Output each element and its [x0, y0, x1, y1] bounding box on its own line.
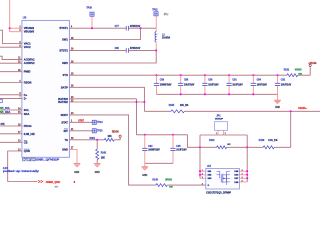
wire jumper loop top [200, 134, 247, 136]
svg-text:BQ25713R: BQ25713R [23, 159, 35, 162]
test point TP24 [92, 120, 96, 124]
wire R131 to +VCHG [298, 67, 311, 76]
svg-text:47NF/16V: 47NF/16V [130, 25, 141, 28]
wire INT to TP25 [70, 130, 93, 132]
svg-text:R131: R131 [284, 70, 290, 72]
svg-text:3: 3 [202, 177, 203, 179]
wire PMID from left edge [0, 71, 22, 73]
wire jumper loop right [246, 135, 248, 147]
svg-text:C90: C90 [208, 80, 213, 82]
U17 internal FET symbol [217, 171, 220, 178]
svg-text:R301: R301 [90, 138, 96, 140]
svg-text:C88: C88 [184, 80, 189, 82]
svg-text:10UF/16V: 10UF/16V [176, 149, 187, 151]
wire ACDRV2 from left edge [0, 62, 22, 64]
U17 pin D#6 (7) [239, 174, 247, 176]
svg-text:10K: 10K [101, 157, 106, 159]
wire C80 to SW2 node [128, 49, 156, 51]
wire VAC2 from left edge [0, 46, 22, 48]
svg-text:SDRV: SDRV [61, 113, 69, 117]
wire to VBUS#3 pin [10, 31, 23, 33]
wire ground stub [277, 94, 279, 100]
wire VBUS input vertical from top edge [9, 0, 11, 32]
svg-text:7: 7 [242, 173, 243, 175]
svg-text:BATP: BATP [61, 85, 68, 89]
junction SW2 node [155, 49, 157, 51]
svg-text:VAC1: VAC1 [24, 41, 31, 45]
wire TS [70, 139, 105, 141]
wire SCL [0, 109, 22, 111]
junction SYS at C92 [276, 74, 278, 76]
resistor R139 0.01_1% [247, 146, 263, 148]
svg-text:R141: R141 [209, 139, 215, 142]
svg-text:10UF/16V: 10UF/16V [281, 84, 292, 86]
test point TP20 [90, 12, 94, 16]
svg-text:100_1%: 100_1% [180, 105, 188, 107]
wire SYS rail [70, 74, 287, 76]
svg-text:U5: U5 [23, 16, 27, 20]
junction PACK+ branch [290, 110, 292, 112]
wire SW2 node down to SW2 pin [70, 50, 157, 63]
svg-text:100NF/16V: 100NF/16V [148, 149, 160, 151]
wire BAT sense rail to jumper loop [137, 135, 201, 148]
capacitor C92 10UF/16V [277, 75, 279, 83]
wire jumper loop left [199, 135, 201, 147]
svg-text:TP21: TP21 [152, 9, 158, 11]
svg-text:R139: R139 [259, 140, 265, 142]
U5 part number highlighted BQ25713R [22, 158, 35, 161]
svg-text:SCL: SCL [24, 108, 30, 112]
capacitor C91 10UF/16V [228, 75, 230, 83]
svg-text:QON: QON [24, 149, 30, 153]
svg-text:C95: C95 [176, 146, 181, 148]
svg-text:D+: D+ [24, 93, 28, 97]
svg-text:R145: R145 [152, 178, 158, 181]
svg-text:R142: R142 [101, 151, 107, 154]
svg-text:BTST1: BTST1 [60, 26, 69, 30]
capacitor C88 10UF/16V [180, 75, 182, 83]
svg-text:SW1: SW1 [62, 37, 68, 41]
wire TP20 stub [91, 16, 93, 28]
svg-text:TP20: TP20 [86, 8, 92, 10]
U17 pin D#8 (5) [239, 181, 247, 183]
capacitor C89 100NF/16V [156, 75, 158, 83]
svg-text:NM: NM [169, 187, 173, 189]
junction ground rail [204, 93, 206, 95]
svg-text:0R003: 0R003 [165, 179, 172, 181]
svg-text:TP24: TP24 [97, 121, 103, 124]
svg-text:C77: C77 [115, 26, 120, 28]
capacitor C84 10UF/16V [252, 75, 254, 83]
wire BTST2 to cap C80 [70, 49, 126, 51]
wire CE from left edge [0, 141, 22, 143]
wire BATP down to R135 row [70, 87, 145, 111]
svg-text:NC: NC [227, 144, 231, 146]
wire ACDRV1 from left edge [0, 56, 22, 59]
svg-text:C92: C92 [281, 80, 286, 82]
wire to VBUS#2 pin [10, 27, 23, 29]
wire VAC1 from left edge [0, 30, 22, 43]
svg-text:TP25: TP25 [97, 131, 103, 133]
svg-text:C89: C89 [160, 80, 165, 82]
svg-text:STAT: STAT [61, 120, 68, 124]
svg-text:1UH/5A: 1UH/5A [162, 37, 171, 40]
resistor R135 100_1% [144, 110, 171, 112]
U17 pin S#1 (1) [200, 170, 206, 172]
wire U17 left source bus [199, 147, 201, 178]
svg-text:REGN: REGN [112, 131, 119, 133]
junction ground rail [252, 93, 254, 95]
junction TP20/BTST1 [91, 27, 93, 29]
junction SW1 branch [139, 27, 141, 29]
U17 pin D#7 (6) [239, 177, 247, 179]
U17 pin D#5 (8) [239, 170, 247, 172]
svg-text:10K: 10K [108, 136, 113, 138]
wire R145 to U17 gate [167, 184, 206, 186]
wire QON to CHGR_QOC [8, 151, 38, 182]
svg-text:VAC2: VAC2 [24, 45, 31, 49]
ground GND battery caps [141, 166, 148, 168]
svg-text:C84: C84 [257, 79, 262, 82]
U17 pin S#2 (2) [200, 174, 206, 176]
IC U5 BQ25713 charger body [22, 20, 70, 157]
svg-text:SDA: SDA [24, 112, 30, 116]
wire STAT to TP24 [70, 121, 93, 123]
wire R301 to REGN node [114, 137, 120, 139]
svg-text:GND: GND [142, 175, 147, 177]
junction SYS at C88 [180, 74, 182, 76]
svg-text:CHGR_QOC: CHGR_QOC [46, 181, 61, 184]
svg-text:1: 1 [202, 170, 203, 172]
wire C94 C95 ground rail [145, 162, 173, 164]
wire D- from left edge [0, 97, 22, 99]
ground GND pin27 [74, 163, 81, 165]
wire JP1 pin1 stub [217, 130, 219, 135]
svg-text:0.01_1%: 0.01_1% [268, 140, 277, 142]
svg-text:10UF/16V: 10UF/16V [208, 84, 219, 86]
junction BAT nets [135, 101, 137, 103]
svg-text:6: 6 [242, 177, 243, 179]
svg-text:4: 4 [202, 183, 203, 186]
capacitor C80 [125, 48, 127, 53]
svg-text:GND: GND [62, 147, 68, 151]
wire GND pin 27 [70, 149, 78, 163]
svg-text:REGN: REGN [24, 80, 32, 84]
connector box stub on D- net [0, 99, 3, 103]
off-page connector CHGR_QOC [38, 180, 43, 183]
wire ILIM_HIZ from left edge [0, 133, 22, 135]
wire TP21 stub [155, 16, 157, 28]
wire BTST1 to cap C77 [70, 27, 126, 29]
svg-text:C94: C94 [148, 145, 153, 148]
svg-text:C80: C80 [115, 48, 120, 50]
junction TS divider [96, 139, 98, 141]
node REGN [119, 135, 121, 137]
junction R141/R139 [246, 146, 248, 148]
junction VBUS [9, 27, 11, 29]
wire PROG from left edge [0, 125, 22, 127]
capacitor C77 [125, 26, 127, 31]
svg-text:R135: R135 [169, 105, 175, 107]
svg-text:0R003: 0R003 [295, 70, 302, 72]
svg-text:SYS: SYS [63, 73, 69, 77]
junction C94 [144, 134, 146, 136]
svg-text:10UF/16V: 10UF/16V [257, 84, 268, 86]
svg-text:U17: U17 [207, 166, 212, 168]
svg-text:JP1: JP1 [216, 115, 221, 117]
svg-text:BTST2: BTST2 [60, 48, 69, 52]
svg-text:CE: CE [24, 140, 28, 144]
wire BAT#22 [70, 101, 145, 103]
junction BATP/BAT#22 [143, 101, 145, 103]
resistor R145 0R003 [156, 184, 167, 187]
svg-text:GND: GND [95, 172, 100, 174]
svg-text:2: 2 [202, 173, 203, 175]
svg-text:5: 5 [242, 181, 243, 183]
wire SDRV to gate resistor [70, 115, 157, 185]
wire SW1 node to inductor [155, 28, 157, 31]
svg-text:VBUS#2: VBUS#2 [24, 26, 35, 30]
wire REGN pin from left edge [0, 82, 22, 84]
svg-text:10UF/16V: 10UF/16V [232, 84, 243, 86]
svg-text:GND: GND [74, 172, 79, 174]
jumper JP1 BTHOP [214, 122, 227, 131]
resistor R301 10K [104, 138, 114, 141]
wire U17 right drain bus [246, 147, 248, 182]
test point TP25 [92, 129, 96, 133]
svg-text:ACDRV2: ACDRV2 [24, 61, 35, 65]
wire SDA [0, 113, 22, 115]
svg-text:ILIM_HIZ: ILIM_HIZ [24, 132, 35, 136]
test point TP21 [154, 12, 158, 16]
ground GND R142 [94, 163, 101, 165]
resistor R141 NC [200, 146, 217, 148]
svg-text:G: G [208, 185, 210, 187]
svg-text:SW2: SW2 [62, 61, 68, 65]
svg-text:D-: D- [24, 96, 27, 100]
ground GND sys caps [274, 99, 281, 101]
junction C95 [172, 134, 174, 136]
wire ground stub C94 [144, 163, 146, 166]
svg-text:47NF/16V: 47NF/16V [130, 47, 141, 50]
capacitor C95 10UF/16V [172, 135, 174, 148]
svg-text:ACDRV1: ACDRV1 [24, 57, 35, 61]
junction ground rail [228, 93, 230, 95]
junction R141 left [199, 146, 201, 148]
svg-text:TS: TS [65, 138, 69, 142]
capacitor C90 10UF/16V [204, 75, 206, 83]
junction SYS at C84 [252, 74, 254, 76]
capacitor C94 100NF/16V [144, 135, 146, 148]
junction SYS at C89 [155, 74, 157, 76]
wire JP1 pin2 stub [223, 130, 225, 135]
svg-text:pulled up internally: pulled up internally [3, 170, 40, 173]
svg-text:GND: GND [275, 107, 280, 109]
wire SW1 branch down [70, 28, 141, 39]
node +VCHG [309, 64, 311, 66]
wire SYS caps ground rail [157, 93, 278, 95]
junction SYS at C91 [228, 74, 230, 76]
resistor R142 10K pulldown [96, 140, 98, 150]
wire inductor to SW2 node [155, 42, 157, 50]
svg-text:BTHOP: BTHOP [215, 118, 223, 120]
junction ground rail [180, 93, 182, 95]
resistor R131 [287, 74, 298, 77]
svg-text:PACK+: PACK+ [298, 107, 307, 110]
svg-text:VBUS#3: VBUS#3 [24, 30, 35, 34]
U17 pin S#3 (3) [200, 177, 206, 179]
svg-text:C91: C91 [232, 80, 237, 82]
wire R135 to PACK+ right edge [184, 110, 320, 112]
svg-text:PMID: PMID [24, 70, 31, 74]
svg-text:BAT#22: BAT#22 [58, 100, 68, 104]
svg-text:8: 8 [242, 170, 243, 172]
svg-text:+VCHG: +VCHG [308, 63, 316, 65]
wire BAT#23 down join [136, 99, 138, 135]
svg-text:PROG: PROG [24, 124, 32, 128]
MOSFET U17 CSD17571Q3 body [206, 168, 240, 189]
junction SYS at C90 [204, 74, 206, 76]
svg-text:10UF/16V: 10UF/16V [184, 84, 195, 86]
inductor L2 [155, 32, 156, 43]
wire C77 to SW1 node [128, 27, 156, 29]
wire BAT#23 [70, 98, 137, 100]
svg-text:CSD17571Q3_DFN8P: CSD17571Q3_DFN8P [206, 193, 232, 195]
wire R139 up to PACK+ [290, 111, 292, 147]
svg-text:INT: INT [64, 129, 69, 133]
wire D+ from left edge [0, 94, 22, 96]
svg-text:100NF/16V: 100NF/16V [160, 84, 172, 86]
svg-text:(NL): (NL) [164, 14, 169, 16]
svg-text:SNR_QFN32P: SNR_QFN32P [36, 160, 60, 162]
